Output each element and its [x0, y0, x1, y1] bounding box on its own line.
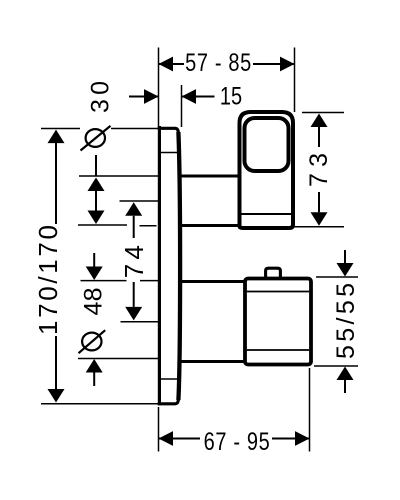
svg-text:57 - 85: 57 - 85 [185, 49, 252, 77]
dimension 15: right arrowhead [182, 89, 197, 104]
dimension 67-95: left arrowhead [159, 431, 174, 446]
dimension 73: bottom boundary tick [294, 226, 344, 228]
dimension 67-95: left extension line [158, 407, 160, 452]
dimension 57-85: right arrowhead [280, 57, 295, 72]
dimension 57-85: right extension line [294, 48, 296, 113]
dimension 15: left arrowhead [144, 89, 159, 104]
knob safety button tab [266, 268, 281, 277]
wall plate: bottom edge [158, 399, 179, 404]
dimension O48: bottom arrowhead (outside, pointing up) [86, 359, 103, 373]
dimension O30: top boundary line crossing plate [79, 175, 178, 177]
label O48: diameter symbol circle [82, 333, 101, 351]
wall plate: left edge [158, 126, 161, 405]
dimension O30: boundary line through label (left of plate) [41, 128, 80, 130]
label O30: diameter symbol slash [81, 126, 111, 151]
knob stem (lower sleeve) top edge [178, 280, 246, 283]
dimension 74: bottom boundary line [121, 321, 172, 323]
dimension O30: shaft between arrows [95, 191, 97, 211]
dimension 15: dimension line with outside arrows [129, 96, 159, 98]
dimension 170/170: down arrowhead [48, 389, 65, 403]
dimension O30: down arrowhead [88, 211, 105, 225]
dimension O30: leader stub [95, 155, 97, 176]
dimension 73: up arrowhead [311, 114, 328, 128]
dimension 67-95: dimension line [159, 438, 201, 440]
dimension 55/55: bottom arrowhead (outside, pointing up) [337, 367, 354, 381]
label O48: diameter symbol slash [79, 330, 106, 353]
wall plate: white body fill [158, 127, 182, 406]
wall plate: top corner curvature line [161, 152, 179, 154]
handle outer contour [240, 112, 294, 228]
dimension 55/55: top arrowhead (outside, pointing down) [337, 263, 354, 277]
dimension 67-95: right arrowhead [295, 431, 310, 446]
dimension 67-95: right extension line [309, 368, 311, 452]
dimension O48: top boundary line (gapped below 74 label) [81, 280, 127, 282]
dimension O48: arrow tails [93, 253, 95, 267]
dimension 15: right extension line [181, 85, 183, 127]
dimension O48: top arrowhead (outside, pointing down) [86, 267, 103, 281]
dimension 55/55: bottom boundary tick [314, 365, 358, 367]
dimension 170/170: bottom boundary tick [41, 403, 158, 405]
dimension 73: down arrowhead [311, 212, 328, 226]
dimension 73: shaft segments [318, 127, 320, 147]
knob grip band bottom line [247, 349, 309, 351]
handle lower band line [242, 213, 292, 215]
dimension 55/55: top boundary tick [316, 276, 358, 278]
knob stem (lower sleeve) bottom edge [178, 360, 246, 363]
svg-text:15: 15 [220, 82, 242, 110]
svg-text:55/55: 55/55 [332, 283, 360, 359]
wall plate: bottom corner curvature line [161, 378, 179, 380]
dimension O48: bottom boundary line [78, 358, 165, 360]
svg-text:48: 48 [80, 288, 108, 316]
dimension O30: bottom boundary line (gapped at 74 shaft) [78, 224, 127, 226]
dimension 170/170: up arrowhead [48, 130, 65, 144]
dimension 74: up arrowhead [125, 202, 142, 216]
dimension 170/170: shaft segments [55, 143, 57, 224]
dimension 57-85: dimension line [159, 63, 185, 65]
svg-text:67 - 95: 67 - 95 [204, 428, 271, 456]
dimension 55/55: arrow tails [344, 250, 346, 263]
handle stem (upper sleeve) top edge [178, 175, 240, 178]
handle inner hole [245, 118, 289, 171]
wall plate: top edge [158, 128, 179, 133]
wall plate: curved right edge [178, 132, 180, 400]
dimension O30: up arrowhead [88, 178, 105, 192]
handle stem (upper sleeve) bottom edge [178, 224, 240, 227]
temperature knob body [245, 279, 311, 365]
dimension 73: top boundary tick [302, 112, 344, 114]
dimension 57-85: left arrowhead [159, 57, 174, 72]
dimension 74: top boundary line [120, 200, 173, 202]
knob grip band top line [247, 291, 309, 293]
dimension 57-85: left extension line [158, 48, 160, 128]
dimension 74: down arrowhead [125, 307, 142, 321]
dimension 74: shaft segments [133, 216, 135, 238]
label O30: diameter symbol circle [86, 129, 105, 147]
